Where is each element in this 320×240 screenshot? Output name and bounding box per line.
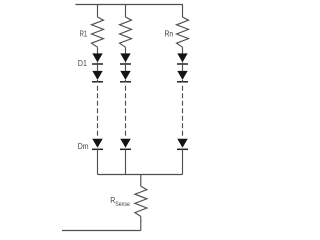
resistor Rn — [177, 17, 189, 47]
svg-text:Rn: Rn — [165, 29, 174, 39]
svg-text:Dm: Dm — [78, 141, 89, 151]
wire string1 dashed — [97, 86, 99, 138]
svg-text:Sense: Sense — [115, 202, 130, 209]
wire bottom rail — [98, 174, 183, 176]
label RSense — [110, 195, 130, 208]
wire string2 resistor to diode — [125, 47, 127, 53]
diode string2 Dm row — [120, 139, 131, 175]
svg-text:R1: R1 — [80, 28, 88, 39]
resistor RSense — [135, 186, 147, 216]
svg-text:D1: D1 — [78, 58, 87, 68]
wire rail to Rsense — [140, 175, 142, 187]
wire string2 top — [125, 5, 127, 18]
wire string3 dashed — [182, 86, 184, 138]
wire R1 to D1 — [97, 47, 99, 53]
diode string3 Dm row — [177, 139, 188, 175]
diode string3 first — [177, 53, 188, 71]
wire Rsense to bottom — [140, 216, 142, 230]
wire string1 top — [97, 5, 99, 18]
diode D1 — [92, 53, 103, 71]
wire top rail — [76, 4, 184, 6]
resistor string2 — [120, 17, 132, 47]
diode string2 first — [120, 53, 131, 71]
diode string2 second — [120, 71, 131, 83]
wire bottom return — [62, 230, 141, 232]
resistor R1 — [92, 17, 104, 47]
wire string3 top corner — [182, 5, 184, 18]
wire Rn to diode — [182, 47, 184, 53]
diode string3 second — [177, 71, 188, 83]
wire string2 dashed — [125, 86, 127, 138]
diode string1 second — [92, 71, 103, 83]
diode Dm string1 — [92, 139, 103, 175]
